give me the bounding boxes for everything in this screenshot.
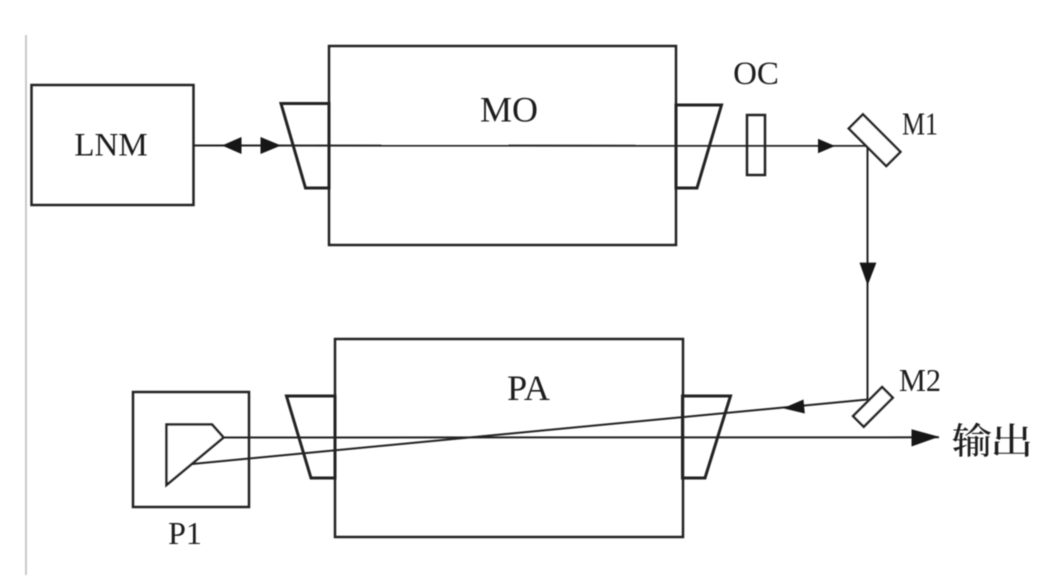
svg-text:M1: M1 [902, 106, 938, 142]
svg-text:OC: OC [733, 56, 779, 92]
svg-text:MO: MO [480, 90, 538, 130]
svg-text:P1: P1 [168, 515, 202, 551]
svg-text:M2: M2 [899, 362, 941, 398]
svg-text:LNM: LNM [74, 128, 147, 164]
svg-text:PA: PA [507, 368, 550, 408]
